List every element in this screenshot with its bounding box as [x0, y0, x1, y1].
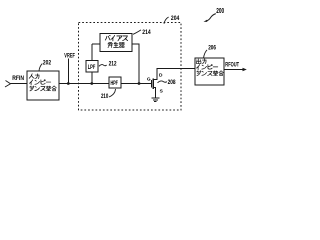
label 204 leader: [164, 17, 169, 24]
svg-text:202: 202: [43, 60, 52, 66]
wire RFOUT: [224, 69, 243, 71]
junction node LPF branch on main line: [90, 82, 93, 85]
wire RFIN to input box: [11, 83, 28, 85]
label 214 leader: [133, 30, 141, 34]
svg-text:LPF: LPF: [88, 65, 96, 71]
wire main line input box to gate: [59, 83, 151, 85]
wire drain lead: [153, 69, 195, 80]
channel bar: [152, 79, 154, 89]
RFIN arrowhead: [5, 81, 11, 88]
LPF box 212: [86, 61, 98, 73]
svg-text:200: 200: [216, 8, 224, 15]
gate bar: [150, 80, 152, 88]
junction node VREF on main line: [67, 82, 70, 85]
svg-text:210: 210: [101, 94, 109, 100]
RFOUT arrowhead: [243, 68, 247, 72]
svg-text:206: 206: [208, 45, 216, 51]
svg-text:208: 208: [168, 80, 177, 86]
wire LPF branch vertical: [91, 44, 93, 84]
svg-text:HPF: HPF: [110, 81, 118, 87]
svg-text:RFOUT: RFOUT: [225, 62, 239, 68]
svg-text:D: D: [159, 73, 163, 79]
wire VREF vertical: [67, 59, 69, 84]
ground: [151, 98, 159, 102]
wire bias generator output: [132, 44, 139, 84]
label 208 leader: [158, 81, 167, 83]
svg-text:G: G: [147, 76, 151, 82]
svg-text:212: 212: [109, 61, 118, 67]
bias generator box 214: [100, 34, 132, 52]
label 206 leader: [204, 50, 207, 58]
output impedance matching box 206: [195, 58, 224, 85]
wire source lead: [153, 88, 156, 98]
svg-text:VREF: VREF: [64, 54, 75, 60]
HPF box 210: [109, 77, 121, 88]
junction node bias output on gate line: [138, 82, 141, 85]
input impedance matching box 202: [27, 71, 59, 100]
dashed box 204: [79, 23, 182, 111]
svg-text:204: 204: [171, 16, 180, 22]
transistor 208 (FET gate and channel bars): [151, 79, 153, 89]
label 202 leader: [39, 64, 42, 71]
label 210 leader: [109, 89, 116, 97]
svg-text:214: 214: [142, 30, 151, 36]
svg-text:RFIN: RFIN: [12, 76, 24, 82]
label 212 leader: [99, 65, 107, 67]
wire LPF to bias generator: [92, 43, 100, 45]
